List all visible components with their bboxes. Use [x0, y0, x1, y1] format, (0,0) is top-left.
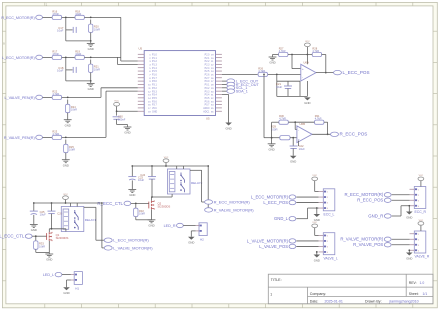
svg-text:REV:: REV: — [409, 281, 417, 285]
svg-text:2025-01-01: 2025-01-01 — [325, 300, 343, 304]
svg-text:SDA_1: SDA_1 — [236, 90, 248, 94]
svg-text:L_ECC_POS: L_ECC_POS — [343, 70, 370, 75]
svg-text:C26: C26 — [57, 211, 62, 215]
svg-text:GND: GND — [124, 131, 130, 135]
svg-text:R_ECC_MOTOR(R): R_ECC_MOTOR(R) — [1, 16, 34, 20]
svg-text:ECC_L: ECC_L — [324, 212, 335, 216]
svg-text:LED_L: LED_L — [43, 273, 54, 277]
svg-text:10kR: 10kR — [71, 108, 77, 112]
svg-text:VCC: VCC — [419, 175, 424, 177]
svg-text:GND: GND — [314, 218, 320, 222]
svg-text:RELAY2: RELAY2 — [191, 181, 203, 185]
svg-text:R_VALVE_MOTOR(R): R_VALVE_MOTOR(R) — [214, 207, 255, 212]
svg-text:4.7kR: 4.7kR — [279, 117, 286, 121]
svg-text:GND: GND — [406, 215, 412, 219]
svg-text:10kR: 10kR — [139, 212, 145, 216]
svg-text:P2.0: P2.0 — [205, 54, 210, 56]
svg-text:-: - — [302, 75, 303, 79]
svg-text:TITLE:: TITLE: — [271, 278, 282, 282]
svg-text:P2.1: P2.1 — [205, 58, 210, 60]
svg-text:L_VALVE_MOTOR(R): L_VALVE_MOTOR(R) — [247, 238, 289, 243]
svg-text:P0.1: P0.1 — [205, 85, 210, 87]
svg-text:SI2300DS: SI2300DS — [158, 205, 171, 209]
svg-text:GND_L: GND_L — [274, 216, 289, 221]
svg-text:GND: GND — [290, 160, 296, 164]
svg-text:4.7kR: 4.7kR — [279, 49, 286, 53]
svg-text:1/1: 1/1 — [423, 292, 428, 296]
svg-text:10kR: 10kR — [39, 244, 45, 248]
svg-text:P1.7: P1.7 — [152, 78, 157, 80]
svg-text:U6B: U6B — [300, 122, 306, 126]
svg-text:P2.3: P2.3 — [205, 64, 210, 66]
svg-text:VCC: VCC — [312, 175, 317, 177]
svg-text:H1: H1 — [75, 286, 79, 290]
svg-text:R_VALVE_PEN(R): R_VALVE_PEN(R) — [4, 136, 35, 140]
svg-text:VCC: VCC — [305, 41, 310, 43]
svg-text:1.0: 1.0 — [420, 281, 425, 285]
svg-text:GND_R: GND_R — [368, 213, 383, 218]
svg-text:GND: GND — [88, 87, 94, 91]
svg-text:P3.5: P3.5 — [152, 98, 157, 100]
svg-text:4.7kR: 4.7kR — [52, 132, 59, 136]
svg-text:GND: GND — [406, 256, 412, 260]
svg-text:10uF: 10uF — [138, 178, 144, 182]
svg-text:P1.6: P1.6 — [152, 75, 157, 77]
svg-text:4.7kR: 4.7kR — [52, 92, 59, 96]
svg-text:P0.6: P0.6 — [205, 101, 210, 103]
svg-text:LED_R: LED_R — [164, 224, 176, 228]
svg-text:P0.0: P0.0 — [205, 81, 210, 83]
svg-text:P3.1: P3.1 — [152, 85, 157, 87]
svg-text:GND: GND — [63, 291, 69, 295]
svg-text:10kR: 10kR — [75, 12, 81, 16]
svg-text:VCC: VCC — [312, 222, 317, 224]
svg-text:GND: GND — [225, 126, 231, 130]
svg-text:L_ECC_MOTOR(R): L_ECC_MOTOR(R) — [113, 238, 149, 243]
svg-text:VCC: VCC — [63, 194, 68, 196]
svg-text:ECC_R: ECC_R — [415, 210, 427, 214]
svg-text:P3.3: P3.3 — [152, 91, 157, 93]
svg-text:VCC: VCC — [114, 101, 119, 103]
svg-text:P1.0: P1.0 — [152, 54, 157, 56]
svg-text:L_VALVE_MOTOR(R): L_VALVE_MOTOR(R) — [113, 245, 153, 250]
svg-text:L_VALVE_PEN(R): L_VALVE_PEN(R) — [4, 96, 34, 100]
svg-text:ADC0: ADC0 — [203, 107, 210, 110]
svg-text:GND: GND — [63, 163, 69, 167]
svg-text:jiamingzhang2010: jiamingzhang2010 — [389, 300, 419, 304]
svg-text:RELAY1: RELAY1 — [85, 218, 97, 222]
svg-text:10uF: 10uF — [276, 85, 283, 89]
svg-text:1: 1 — [270, 293, 272, 297]
svg-text:H2: H2 — [200, 238, 204, 242]
svg-text:GND: GND — [314, 258, 320, 262]
svg-text:VCC: VCC — [164, 157, 169, 159]
svg-text:L_ECC_MOTOR(R): L_ECC_MOTOR(R) — [251, 194, 289, 199]
svg-text:VCC: VCC — [152, 108, 157, 110]
svg-text:GND: GND — [129, 193, 135, 197]
svg-text:GND: GND — [31, 228, 37, 232]
svg-text:P2.4: P2.4 — [205, 68, 210, 70]
svg-text:L_VALVE_POS: L_VALVE_POS — [259, 244, 288, 249]
svg-text:10kR: 10kR — [69, 148, 75, 152]
svg-text:VALVE_R: VALVE_R — [415, 255, 430, 259]
svg-text:P3.0: P3.0 — [152, 81, 157, 83]
svg-text:P1.1: P1.1 — [152, 58, 157, 60]
svg-text:R_ECC_POS: R_ECC_POS — [357, 198, 383, 203]
svg-text:10kR: 10kR — [75, 52, 81, 56]
svg-text:ADC1: ADC1 — [203, 110, 210, 113]
svg-text:10kR: 10kR — [94, 28, 100, 32]
svg-text:P1.3: P1.3 — [152, 64, 157, 66]
svg-text:Drawn By:: Drawn By: — [365, 300, 382, 304]
svg-text:GND: GND — [188, 241, 194, 245]
svg-text:L_ECC_MOTOR(R): L_ECC_MOTOR(R) — [2, 56, 35, 60]
svg-text:P3.2: P3.2 — [152, 88, 157, 90]
svg-text:L_ECC_CTL: L_ECC_CTL — [0, 234, 25, 239]
svg-text:10uF: 10uF — [57, 69, 64, 73]
svg-text:SI2300DS: SI2300DS — [56, 236, 69, 240]
svg-text:P0.2: P0.2 — [205, 88, 210, 90]
svg-text:-: - — [298, 128, 299, 132]
svg-text:R_VALVE_POS: R_VALVE_POS — [353, 242, 383, 247]
svg-text:P2.2: P2.2 — [205, 61, 210, 63]
svg-text:B: B — [3, 42, 5, 46]
svg-text:P0.3: P0.3 — [205, 91, 210, 93]
svg-text:P0.5: P0.5 — [205, 98, 210, 100]
svg-text:GND: GND — [46, 258, 52, 262]
svg-text:U6A: U6A — [303, 60, 309, 64]
svg-text:P3.4: P3.4 — [152, 95, 157, 97]
svg-text:Company:: Company: — [310, 292, 326, 296]
svg-text:GND: GND — [268, 147, 274, 151]
svg-text:P2.5: P2.5 — [205, 71, 210, 73]
svg-text:4.7kR: 4.7kR — [312, 49, 319, 53]
svg-text:10uF: 10uF — [40, 213, 46, 217]
svg-text:P1.5: P1.5 — [152, 71, 157, 73]
svg-text:GND: GND — [304, 101, 310, 105]
svg-text:P3.6: P3.6 — [152, 101, 157, 103]
svg-text:U5: U5 — [139, 47, 143, 51]
svg-text:470R: 470R — [52, 52, 58, 56]
svg-text:R_ECC_MOTOR(R): R_ECC_MOTOR(R) — [344, 192, 383, 197]
svg-text:U5: U5 — [206, 117, 210, 121]
svg-text:C24: C24 — [140, 173, 145, 177]
svg-text:GND: GND — [152, 111, 157, 113]
svg-text:470R: 470R — [52, 12, 58, 16]
svg-text:GND: GND — [65, 123, 71, 127]
svg-text:Date:: Date: — [310, 300, 319, 304]
svg-text:Sheet:: Sheet: — [409, 292, 419, 296]
svg-text:P2.6: P2.6 — [205, 75, 210, 77]
svg-text:GND: GND — [269, 61, 275, 65]
svg-text:R_VALVE_MOTOR(R): R_VALVE_MOTOR(R) — [340, 237, 384, 242]
svg-text:P3.7: P3.7 — [152, 105, 157, 107]
svg-text:P1.2: P1.2 — [152, 61, 157, 63]
svg-text:P2.7: P2.7 — [205, 78, 210, 80]
svg-text:P0.7: P0.7 — [205, 105, 210, 107]
svg-text:P0.4: P0.4 — [205, 95, 210, 97]
svg-text:R_ECC_POS: R_ECC_POS — [340, 132, 368, 137]
svg-text:100nF: 100nF — [118, 117, 126, 121]
svg-text:VALVE_L: VALVE_L — [324, 256, 338, 260]
svg-text:P1.4: P1.4 — [152, 68, 157, 70]
svg-text:4.7kR: 4.7kR — [315, 117, 322, 121]
svg-text:+: + — [302, 67, 304, 71]
svg-text:4.7kR: 4.7kR — [258, 69, 265, 73]
svg-text:GND: GND — [88, 47, 94, 51]
svg-text:R_ECC_MOTOR(R): R_ECC_MOTOR(R) — [214, 199, 251, 204]
svg-text:GND: GND — [148, 223, 154, 227]
svg-text:10uF: 10uF — [57, 29, 64, 33]
svg-text:10kR: 10kR — [94, 68, 100, 72]
svg-text:10uF: 10uF — [299, 147, 305, 151]
svg-text:L_ECC_POS: L_ECC_POS — [263, 200, 288, 205]
svg-text:VCC: VCC — [419, 220, 424, 222]
